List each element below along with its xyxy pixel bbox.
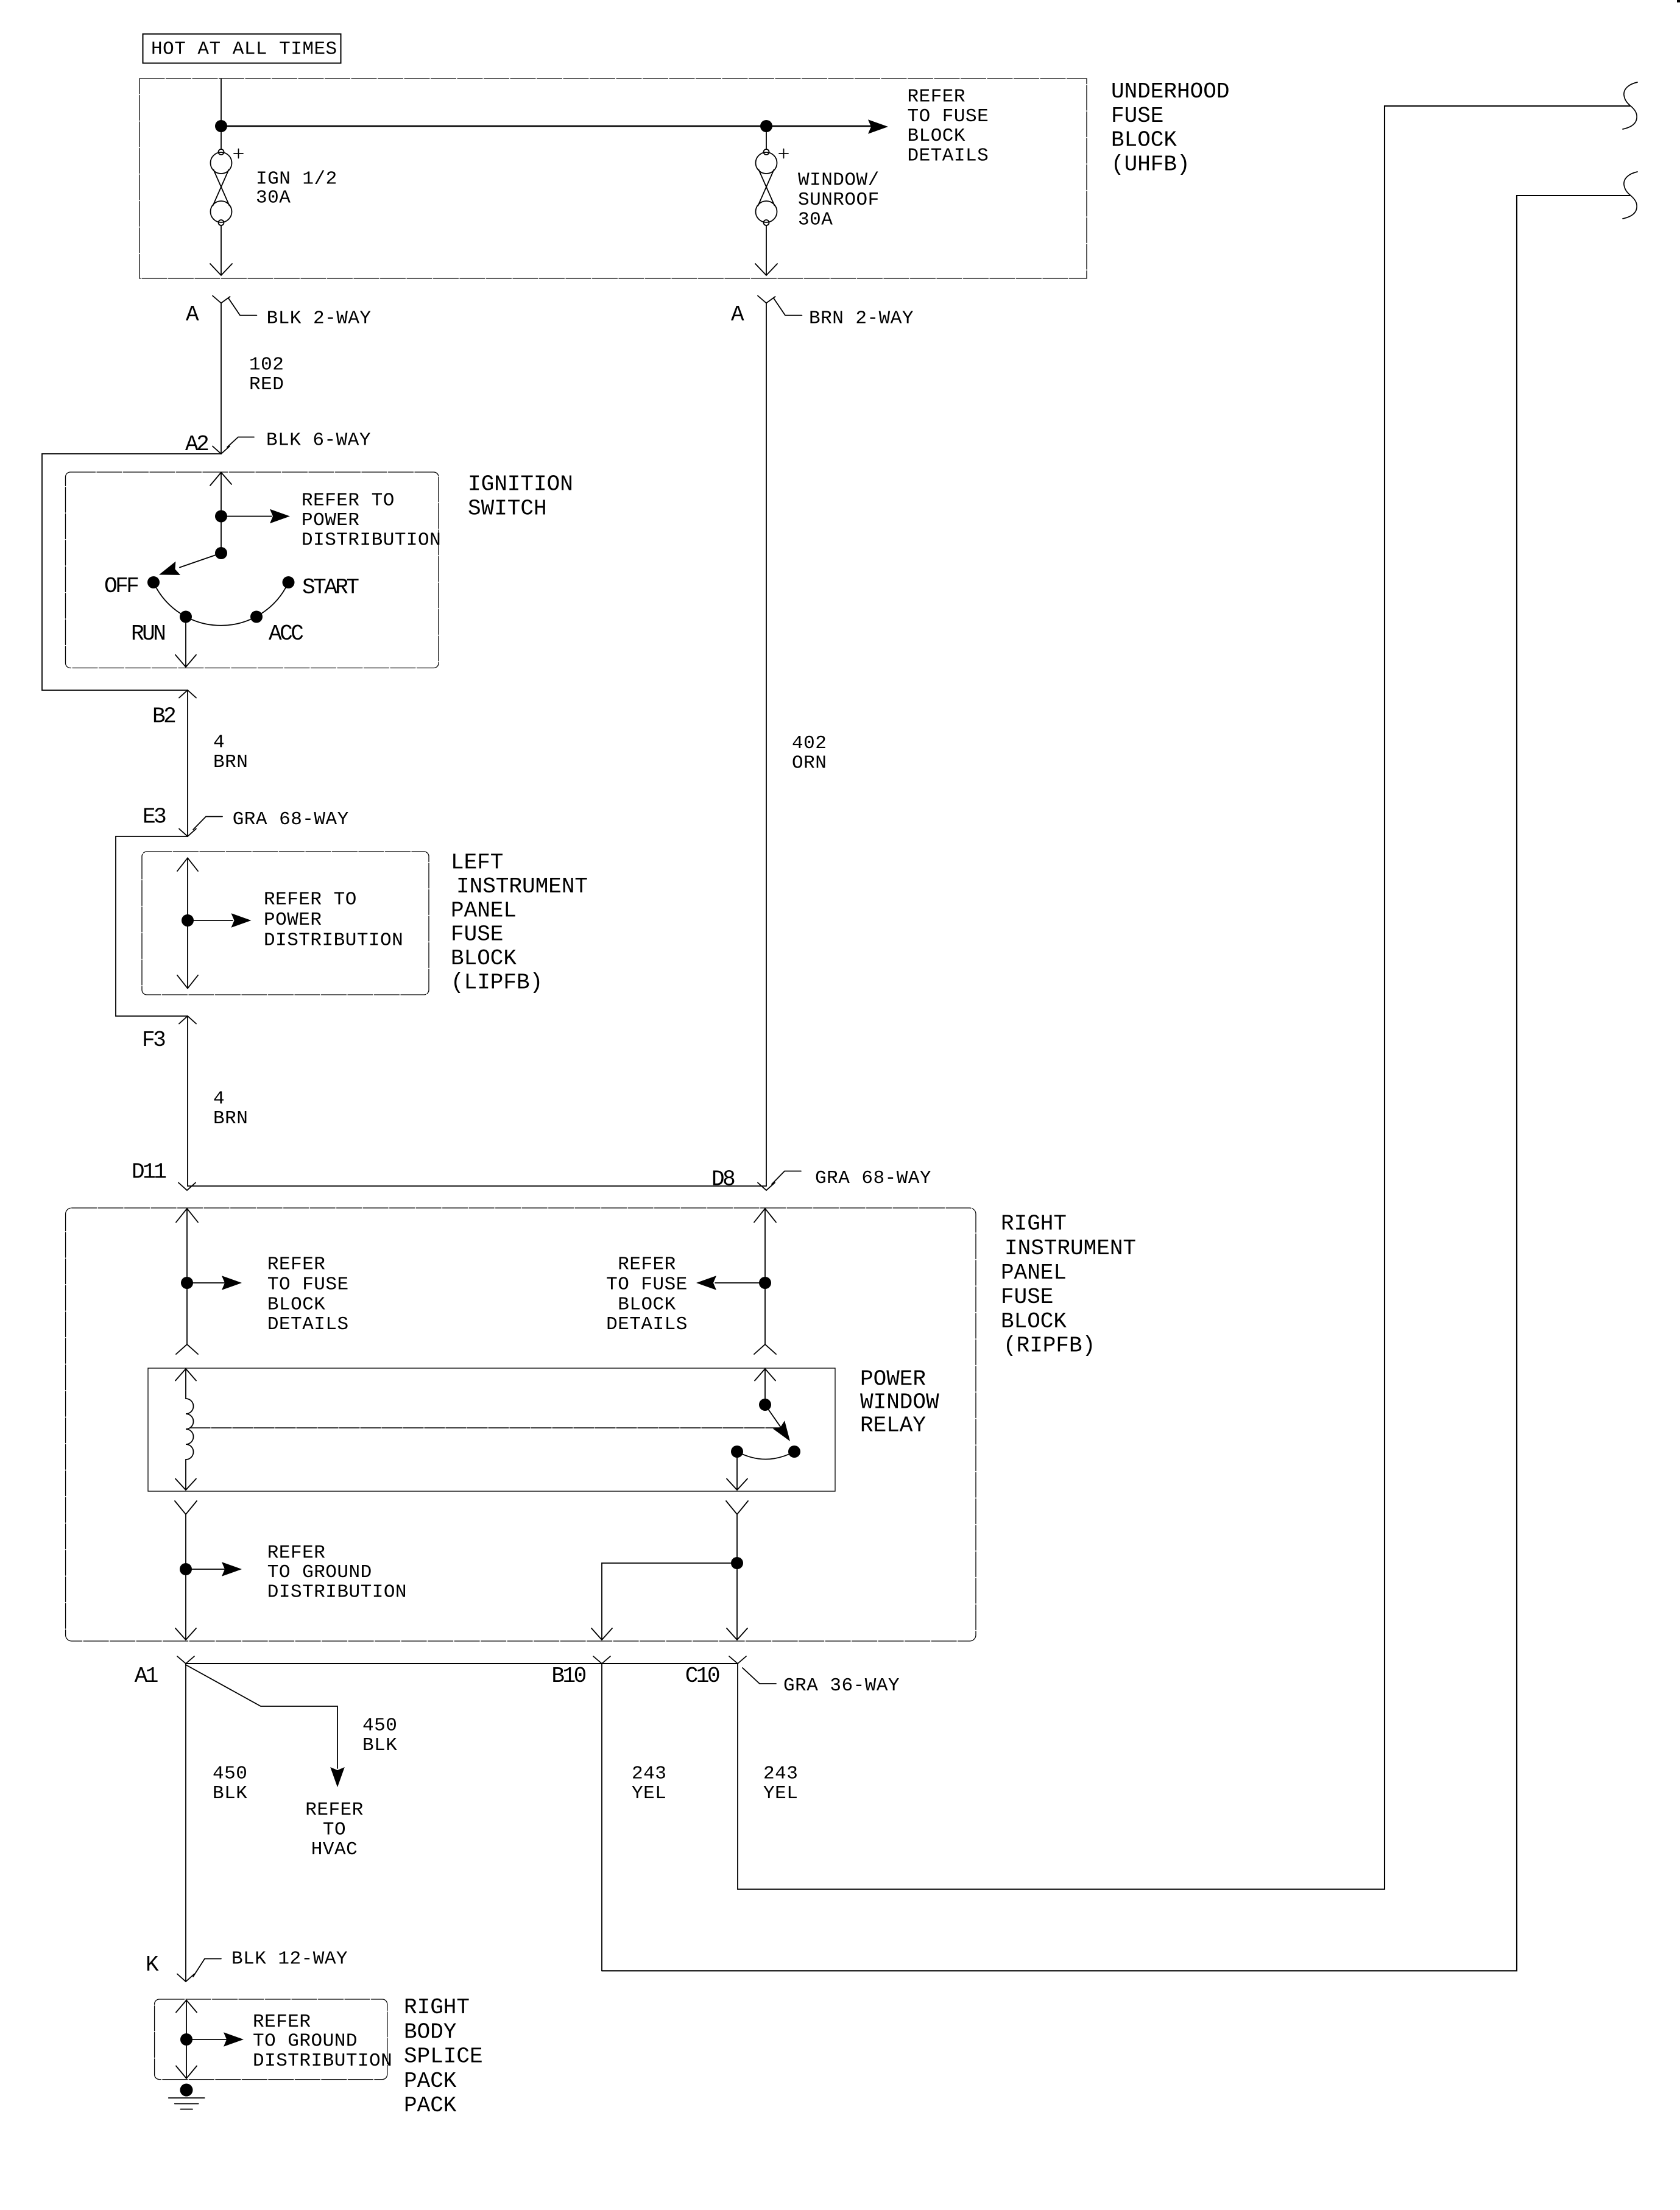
node dot ground distribution xyxy=(180,1563,192,1575)
svg-text:GRA 68-WAY: GRA 68-WAY xyxy=(815,1168,931,1189)
label POWER WINDOW RELAY xyxy=(860,1367,939,1438)
svg-text:SPLICE: SPLICE xyxy=(404,2044,483,2069)
break symbol bottom xyxy=(1623,172,1637,219)
svg-text:REFER: REFER xyxy=(305,1799,364,1821)
svg-text:TO FUSE: TO FUSE xyxy=(606,1274,688,1296)
svg-text:BLOCK: BLOCK xyxy=(1111,128,1177,153)
svg-text:POWER: POWER xyxy=(302,510,360,531)
RIPFB left leg fuse feed xyxy=(176,1209,198,1354)
svg-text:450: 450 xyxy=(362,1715,397,1737)
node dot RIPFB right xyxy=(759,1277,771,1289)
svg-text:FUSE: FUSE xyxy=(1001,1285,1053,1310)
LIPFB bus double arrow xyxy=(177,858,198,989)
ground symbol xyxy=(180,2084,193,2097)
ignition rotor node xyxy=(221,517,222,554)
svg-text:INSTRUMENT: INSTRUMENT xyxy=(1004,1236,1136,1261)
svg-text:F3: F3 xyxy=(142,1028,165,1053)
underhood fuse block UHFB dashed box xyxy=(139,79,1087,278)
svg-text:START: START xyxy=(302,575,359,600)
RIPFB right leg fuse feed xyxy=(754,1209,776,1354)
node dot to power distribution xyxy=(215,510,227,523)
svg-text:REFER: REFER xyxy=(253,2011,311,2033)
svg-text:ACC: ACC xyxy=(269,621,303,646)
svg-text:BODY: BODY xyxy=(404,2019,456,2044)
svg-text:DISTRIBUTION: DISTRIBUTION xyxy=(302,529,441,551)
svg-text:RIGHT: RIGHT xyxy=(1001,1212,1067,1237)
connector B2 xyxy=(179,690,196,698)
wire: off-page feed 1 (to C10 loop) xyxy=(738,106,1630,1890)
right body splice pack box xyxy=(155,1999,387,2080)
svg-text:OFF: OFF xyxy=(104,574,138,599)
svg-text:TO FUSE: TO FUSE xyxy=(267,1274,349,1296)
wire: battery feed into IGN fuse xyxy=(221,79,222,149)
svg-text:DISTRIBUTION: DISTRIBUTION xyxy=(267,1582,407,1603)
svg-text:BRN: BRN xyxy=(213,1108,248,1129)
LIPFB box xyxy=(142,852,429,995)
svg-text:REFER TO: REFER TO xyxy=(302,490,395,511)
position labels xyxy=(104,472,573,647)
connector D11 xyxy=(178,1183,196,1191)
svg-text:TO: TO xyxy=(323,1820,346,1841)
connector A left (BLK 2-WAY) xyxy=(213,296,256,316)
svg-text:BLOCK: BLOCK xyxy=(267,1294,326,1315)
fuse IGN 1/2 30A xyxy=(211,149,244,226)
svg-text:TO GROUND: TO GROUND xyxy=(253,2030,358,2052)
svg-text:BLK 2-WAY: BLK 2-WAY xyxy=(267,308,372,329)
svg-text:PANEL: PANEL xyxy=(451,898,517,923)
svg-text:B10: B10 xyxy=(551,1664,585,1689)
switch arc xyxy=(154,582,289,626)
svg-text:30A: 30A xyxy=(798,209,833,230)
arrow refer to fuse block details left xyxy=(187,1282,225,1283)
wire 4 BRN lower, runs to D8 xyxy=(188,1016,766,1186)
svg-text:ORN: ORN xyxy=(792,752,827,774)
svg-text:LEFT: LEFT xyxy=(451,850,503,875)
svg-text:102: 102 xyxy=(249,354,284,375)
fuse WINDOW/SUNROOF 30A xyxy=(756,132,789,225)
svg-text:INSTRUMENT: INSTRUMENT xyxy=(456,874,588,899)
svg-text:DISTRIBUTION: DISTRIBUTION xyxy=(253,2050,392,2072)
wire C10 stub xyxy=(737,1664,738,1890)
wire B10 stub xyxy=(601,1664,602,1971)
svg-text:YEL: YEL xyxy=(763,1783,798,1804)
svg-text:HVAC: HVAC xyxy=(311,1839,358,1860)
svg-text:REFER: REFER xyxy=(267,1254,326,1276)
svg-text:DETAILS: DETAILS xyxy=(606,1314,688,1335)
svg-text:YEL: YEL xyxy=(632,1783,666,1804)
arrow refer to power distribution LIPFB xyxy=(188,920,233,921)
HOT AT ALL TIMES box xyxy=(143,34,341,63)
wire: bus to window fuse and fuse-details arrow xyxy=(221,125,871,127)
connector A right (BRN 2-WAY) xyxy=(758,296,802,316)
svg-text:GRA 36-WAY: GRA 36-WAY xyxy=(783,1675,900,1696)
svg-text:30A: 30A xyxy=(256,187,291,208)
svg-text:REFER TO: REFER TO xyxy=(264,889,357,911)
switch position dots OFF RUN ACC START xyxy=(147,576,160,588)
svg-text:4: 4 xyxy=(213,1088,225,1109)
svg-text:BLOCK: BLOCK xyxy=(451,946,517,971)
relay output xyxy=(727,1452,747,1490)
relay blade arrow xyxy=(765,1405,785,1433)
svg-text:BLOCK: BLOCK xyxy=(1001,1309,1067,1334)
node dot RIPFB left xyxy=(181,1277,193,1289)
connector F3 xyxy=(179,1016,196,1024)
svg-text:UNDERHOOD: UNDERHOOD xyxy=(1111,79,1229,104)
svg-text:D8: D8 xyxy=(711,1167,735,1191)
svg-text:PACK: PACK xyxy=(404,2093,457,2118)
svg-text:POWER: POWER xyxy=(264,909,322,931)
arrow refer to power distribution xyxy=(221,516,272,517)
svg-text:BLK: BLK xyxy=(362,1735,397,1756)
connector A2 (BLK 6-WAY) xyxy=(213,437,254,454)
relay linkage dashed xyxy=(190,1427,779,1428)
arrow refer to ground distribution splice xyxy=(186,2039,227,2040)
svg-text:D11: D11 xyxy=(132,1159,166,1184)
ignition switch connector loop xyxy=(42,454,221,690)
connector tick GRA 36-WAY xyxy=(743,1668,776,1684)
wire 450 BLK main xyxy=(185,1664,186,1982)
wire: window fuse output arrow xyxy=(755,225,777,275)
wire branch refer to HVAC xyxy=(186,1665,337,1768)
svg-text:WINDOW/: WINDOW/ xyxy=(798,169,880,191)
connector D8 (GRA 68-WAY) xyxy=(758,1171,801,1191)
node dot LIPFB xyxy=(182,914,194,927)
svg-text:BRN: BRN xyxy=(213,752,248,773)
relay coil leg xyxy=(175,1369,196,1399)
wire: IGN fuse output arrow xyxy=(210,225,232,275)
node: junction dot right xyxy=(760,120,772,132)
svg-text:GRA 68-WAY: GRA 68-WAY xyxy=(233,809,349,830)
svg-text:BRN 2-WAY: BRN 2-WAY xyxy=(809,308,914,329)
svg-text:DETAILS: DETAILS xyxy=(267,1314,349,1335)
power window relay box xyxy=(148,1368,835,1491)
svg-text:REFER: REFER xyxy=(618,1254,676,1276)
node dot B10 branch xyxy=(731,1557,743,1569)
svg-text:TO FUSE: TO FUSE xyxy=(908,106,989,127)
label RIGHT BODY SPLICE PACK PACK xyxy=(404,1995,483,2118)
svg-text:REFER: REFER xyxy=(267,1542,326,1564)
ignition feed arrow up xyxy=(210,473,231,517)
svg-text:POWER: POWER xyxy=(860,1367,926,1392)
svg-text:RUN: RUN xyxy=(131,621,164,646)
label LEFT INSTRUMENT PANEL FUSE BLOCK (LIPFB) xyxy=(451,850,588,995)
svg-text:SWITCH: SWITCH xyxy=(468,496,547,521)
wire 4 BRN upper xyxy=(187,690,188,836)
svg-text:A2: A2 xyxy=(185,432,208,457)
arrow to fuse block details xyxy=(868,119,888,134)
svg-text:FUSE: FUSE xyxy=(1111,104,1163,129)
label RIGHT INSTRUMENT PANEL FUSE BLOCK (RIPFB) xyxy=(1001,1212,1136,1358)
svg-text:A1: A1 xyxy=(135,1664,158,1689)
relay contacts xyxy=(731,1446,743,1458)
svg-text:REFER: REFER xyxy=(908,86,966,108)
svg-text:IGN 1/2: IGN 1/2 xyxy=(256,168,337,189)
wire RUN output arrow xyxy=(175,617,196,668)
svg-text:450: 450 xyxy=(213,1763,247,1784)
svg-text:(LIPFB): (LIPFB) xyxy=(451,970,543,995)
svg-text:SUNROOF: SUNROOF xyxy=(798,189,880,211)
svg-text:243: 243 xyxy=(763,1763,798,1784)
wire 402 ORN xyxy=(766,303,767,1187)
svg-text:BLOCK: BLOCK xyxy=(618,1294,676,1315)
break symbol top xyxy=(1623,82,1637,129)
connector E3 (GRA 68-WAY) xyxy=(179,817,222,837)
svg-text:E3: E3 xyxy=(143,804,166,829)
relay output leg to B10/C10 xyxy=(726,1501,748,1640)
svg-text:BLK: BLK xyxy=(213,1783,247,1804)
connector bar A1 B10 C10 xyxy=(186,1663,738,1664)
svg-text:BLOCK: BLOCK xyxy=(908,125,966,147)
splice bus double arrow xyxy=(176,2000,197,2079)
arrow refer to fuse block details right xyxy=(715,1282,765,1283)
svg-text:B2: B2 xyxy=(152,704,175,729)
wire 102 RED xyxy=(221,303,222,454)
relay coil xyxy=(186,1399,194,1460)
svg-text:TO GROUND: TO GROUND xyxy=(267,1562,372,1583)
arrow refer to ground distribution xyxy=(186,1569,225,1570)
wire branch to B10 xyxy=(591,1563,737,1640)
svg-text:243: 243 xyxy=(632,1763,666,1784)
svg-text:(UHFB): (UHFB) xyxy=(1111,152,1190,177)
wires 243 YEL xyxy=(632,1763,798,1804)
svg-text:RED: RED xyxy=(249,374,284,395)
svg-text:FUSE: FUSE xyxy=(451,922,503,947)
svg-text:IGNITION: IGNITION xyxy=(468,472,573,497)
wire: off-page feed 2 (to B10 loop) xyxy=(602,196,1630,1971)
page corner mark xyxy=(1677,0,1680,2)
node dot splice xyxy=(180,2033,192,2046)
svg-text:BLK 6-WAY: BLK 6-WAY xyxy=(266,430,371,451)
relay switch common xyxy=(755,1369,775,1405)
ignition switch box xyxy=(66,472,439,668)
svg-text:PACK: PACK xyxy=(404,2069,457,2094)
RIPFB ground leg xyxy=(175,1501,197,1640)
svg-text:BLK 12-WAY: BLK 12-WAY xyxy=(231,1948,348,1969)
node: junction dot left xyxy=(215,120,227,132)
svg-text:RELAY: RELAY xyxy=(860,1413,926,1438)
svg-text:C10: C10 xyxy=(685,1664,719,1689)
svg-text:4: 4 xyxy=(213,732,225,754)
rotor arrow to OFF xyxy=(180,553,221,568)
svg-text:HOT AT ALL TIMES: HOT AT ALL TIMES xyxy=(151,39,337,60)
svg-text:WINDOW: WINDOW xyxy=(860,1390,939,1415)
svg-text:402: 402 xyxy=(792,733,827,754)
LIPFB connector loop xyxy=(116,836,188,1016)
svg-text:DETAILS: DETAILS xyxy=(908,145,989,166)
connector K (BLK 12-WAY) xyxy=(177,1959,221,1982)
RIPFB box xyxy=(66,1208,976,1641)
svg-text:RIGHT: RIGHT xyxy=(404,1995,470,2020)
svg-text:(RIPFB): (RIPFB) xyxy=(1003,1333,1095,1358)
svg-text:DISTRIBUTION: DISTRIBUTION xyxy=(264,930,403,951)
label: UNDERHOOD FUSE BLOCK (UHFB) xyxy=(1111,79,1229,177)
svg-text:PANEL: PANEL xyxy=(1001,1260,1067,1285)
